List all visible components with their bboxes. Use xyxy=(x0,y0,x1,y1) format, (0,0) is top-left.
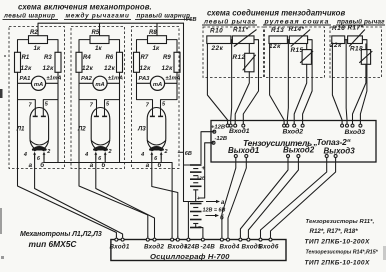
svg-text:2: 2 xyxy=(108,149,112,155)
svg-text:R1: R1 xyxy=(22,55,30,61)
wire: right node down to tube pin 5 of Л3 xyxy=(161,83,178,116)
svg-text:Вход3: Вход3 xyxy=(345,128,366,136)
svg-text:РА3: РА3 xyxy=(139,76,151,82)
svg-text:Вход1: Вход1 xyxy=(229,127,250,135)
svg-text:Вход6: Вход6 xyxy=(259,243,279,251)
svg-text:12к: 12к xyxy=(43,65,55,72)
svg-text:12В = 6В: 12В = 6В xyxy=(203,208,226,214)
heater lead arrows (pins 4,6,2) of Л2 xyxy=(95,154,97,160)
wire: R13 left lead down to amplifier input xyxy=(270,44,285,125)
wire: stub from rail to R2 xyxy=(37,23,39,36)
wire: tube Л3 lead а to Вход3 (b) xyxy=(152,160,178,237)
resistor R4 12к (vertical) xyxy=(76,52,82,72)
wire: R10-R11 junction down to amplifier input xyxy=(231,40,233,124)
wire: block2 left node to Вход2 (a) xyxy=(79,100,148,237)
svg-text:±1mA: ±1mA xyxy=(47,76,62,82)
wire: tube Л1 lead а to Вход1 (b) xyxy=(35,160,123,237)
wire: R5 left to R4 top xyxy=(79,40,90,53)
wire: R10 left lead down to amplifier input xyxy=(207,44,227,125)
svg-text:mA: mA xyxy=(153,82,162,88)
wire: tube Л2 lead а to Вход2 (b) xyxy=(96,160,155,237)
wire: R15 top stub to R14 xyxy=(306,44,308,50)
wire: R4 bottom to meter РА2 xyxy=(79,72,93,83)
svg-text:2: 2 xyxy=(46,149,50,155)
svg-text:-12В: -12В xyxy=(215,136,228,142)
wire: Выход3 to oscillograph Вход6 xyxy=(261,162,327,237)
dashed enclosure box 2 (mechanotron Л2) xyxy=(71,27,125,169)
amplifier input terminals Вход2 xyxy=(283,124,286,127)
svg-text:±1mA: ±1mA xyxy=(108,76,123,82)
svg-text:+24В: +24В xyxy=(184,244,200,251)
wire: left node down to tube pin 7 of Л2 xyxy=(79,83,97,116)
wire: R2 right to R3 top xyxy=(48,40,59,53)
wire: б heater bus to 6В tap xyxy=(44,160,172,237)
milliammeter РА3 ±1mA xyxy=(150,76,164,90)
resistor R16 22к (horizontal) xyxy=(332,36,345,44)
svg-text:Вход1: Вход1 xyxy=(110,243,130,251)
svg-text:12к: 12к xyxy=(21,65,33,72)
oscillograph input terminals xyxy=(115,236,117,239)
wire: R8 left to R7 top xyxy=(137,40,148,53)
svg-text:4: 4 xyxy=(84,152,88,158)
wire: R2 left to R1 top xyxy=(18,40,29,53)
svg-text:1к: 1к xyxy=(95,45,102,52)
resistor R5 1к (horizontal) xyxy=(90,36,109,44)
svg-text:R11*: R11* xyxy=(233,27,248,34)
strain gauge R15* (vertical, slashed) xyxy=(302,50,311,65)
wire: R5 right to R6 top xyxy=(109,40,120,53)
wire: right node down to tube pin 5 of Л1 xyxy=(43,83,58,116)
arrow to heater node б xyxy=(206,215,217,217)
battery GB1 12В (amplifier supply) xyxy=(190,164,202,166)
svg-text:12к: 12к xyxy=(82,65,94,72)
wire: R14 right lead down to amplifier input xyxy=(303,40,313,124)
wire: block2 right node drop to bus xyxy=(119,83,121,162)
strain gauge R14* (horizontal, slashed) xyxy=(289,36,307,44)
svg-text:Тензорезисторы R11*,: Тензорезисторы R11*, xyxy=(306,219,375,225)
wire: meter РА2 to R6 bottom xyxy=(107,72,119,83)
svg-text:Выход3: Выход3 xyxy=(324,147,356,156)
dashed enclosure box (strain gauges R10-R12) xyxy=(203,27,264,78)
svg-text:4: 4 xyxy=(23,152,27,158)
svg-text:6В: 6В xyxy=(185,151,192,157)
svg-text:рулевая сошка: рулевая сошка xyxy=(264,18,330,25)
wire: battery minus to -24В terminal xyxy=(196,225,203,237)
svg-text:12В: 12В xyxy=(197,176,206,182)
svg-text:+: + xyxy=(197,196,200,202)
anode plates inside Л3 xyxy=(150,115,155,117)
wire: R12 bottom down to amplifier input xyxy=(235,72,249,124)
anode plates inside Л1 xyxy=(33,115,38,117)
svg-text:12к: 12к xyxy=(162,65,174,72)
svg-text:РА2: РА2 xyxy=(81,76,93,82)
svg-text:R17*: R17* xyxy=(348,24,364,31)
wire: R15 bottom down to amplifier input xyxy=(294,64,307,124)
arrow to heater node а xyxy=(206,201,217,203)
svg-text:а: а xyxy=(29,162,33,169)
resistor R10 22к (horizontal) xyxy=(207,36,231,44)
wire: left node down to tube pin 7 of Л1 xyxy=(18,83,36,116)
svg-text:Л2: Л2 xyxy=(77,126,86,133)
wire: meter РА1 to R3 bottom xyxy=(46,72,58,83)
svg-text:-24В: -24В xyxy=(201,244,216,251)
mechanotron tube Л3 envelope xyxy=(147,108,166,151)
wire: stub from rail to R5 xyxy=(99,23,101,36)
wire: meter РА3 to R9 bottom xyxy=(165,72,177,83)
svg-text:R9: R9 xyxy=(163,55,171,61)
battery GB2 12В with 6В tap (heater supply) xyxy=(190,203,202,205)
mechanotron tube Л2 envelope xyxy=(91,108,110,151)
svg-text:12к: 12к xyxy=(140,65,152,72)
svg-text:1к: 1к xyxy=(34,45,41,52)
label 6В tap on rail xyxy=(178,151,184,153)
wire: R11 right lead down to amplifier input xyxy=(243,40,258,124)
cathode arc at bottom of Л3 xyxy=(147,141,165,146)
svg-text:+: + xyxy=(202,166,206,172)
svg-text:R10: R10 xyxy=(210,27,223,34)
svg-text:R16: R16 xyxy=(332,25,345,32)
wire: Выход1 to oscillograph Вход4 xyxy=(222,162,236,237)
milliammeter РА2 ±1mA xyxy=(93,76,107,90)
resistor R2 1к (horizontal) xyxy=(29,36,48,44)
heater lead arrows (pins 4,6,2) of Л3 xyxy=(151,154,153,160)
svg-text:mA: mA xyxy=(95,82,104,88)
svg-text:4: 4 xyxy=(140,152,144,158)
strain gauge R12* (vertical, slashed) xyxy=(245,53,254,72)
resistor R1 12к (vertical) xyxy=(15,52,21,72)
svg-text:R12: R12 xyxy=(233,54,246,61)
svg-text:12к: 12к xyxy=(104,65,116,72)
svg-text:схема соединения тензодатчиков: схема соединения тензодатчиков xyxy=(207,8,345,17)
cathode arc at bottom of Л1 xyxy=(30,141,48,146)
wire: R17 right lead down to amplifier input xyxy=(360,40,367,124)
svg-text:ТИП 2ПКБ-10-100Х: ТИП 2ПКБ-10-100Х xyxy=(305,259,370,266)
strain gauge R17* (horizontal, slashed) xyxy=(348,36,363,44)
dashed enclosure box 3 (mechanotron Л3) xyxy=(132,27,180,169)
wire: R18 bottom down to amplifier input xyxy=(353,64,366,124)
wire: б stub tube Л2 to bus xyxy=(104,160,106,163)
svg-text:+12В: +12В xyxy=(211,125,225,131)
svg-text:„Топаз-2“: „Топаз-2“ xyxy=(313,137,352,147)
svg-text:схема включения механотронов.: схема включения механотронов. xyxy=(18,2,152,11)
wire: R18 top stub to R17 xyxy=(365,44,367,50)
svg-text:РА1: РА1 xyxy=(20,76,31,82)
resistor R9 12к (vertical) xyxy=(174,52,180,72)
svg-text:Выход2: Выход2 xyxy=(283,145,315,154)
svg-text:+76В: +76В xyxy=(183,17,197,23)
resistor R13 12к (horizontal) xyxy=(269,36,287,44)
svg-text:R4: R4 xyxy=(83,55,91,61)
dashed enclosure box (strain gauges R16-R18) xyxy=(330,27,382,78)
svg-text:22к: 22к xyxy=(329,42,342,49)
svg-text:между рычагами: между рычагами xyxy=(66,12,130,20)
wire: R1 bottom to meter РА1 xyxy=(18,72,32,83)
svg-text:левый шарнир: левый шарнир xyxy=(3,12,55,20)
svg-text:R6: R6 xyxy=(106,55,114,61)
svg-text:Вход4: Вход4 xyxy=(220,243,240,251)
wire: +76V top rail xyxy=(38,22,184,24)
svg-text:R13: R13 xyxy=(271,27,284,34)
wire: +76V rail drop to battery junction xyxy=(183,23,185,201)
resistor R3 12к (vertical) xyxy=(55,52,61,72)
milliammeter РА1 ±1mA xyxy=(31,76,45,90)
svg-text:Л3: Л3 xyxy=(137,126,146,133)
wire: right node down to tube pin 5 of Л2 xyxy=(105,83,120,116)
amplifier input terminals Вход1 xyxy=(226,124,229,127)
svg-text:Тензорезисторы R14*,R15*: Тензорезисторы R14*,R15* xyxy=(306,249,379,255)
svg-text:R15: R15 xyxy=(291,47,304,54)
wire: battery junction row xyxy=(184,190,203,202)
dashed enclosure box 1 (mechanotron Л1) xyxy=(9,27,65,169)
wire: block1 left node to oscillograph Вход1 (a) xyxy=(18,100,117,237)
svg-text:R5: R5 xyxy=(92,30,100,36)
svg-text:R3: R3 xyxy=(44,55,52,61)
wire: stub from rail to R8 xyxy=(156,23,158,36)
wire: +12В to battery stack xyxy=(201,132,214,164)
amplifier box Тензоусилитель Топаз-2 xyxy=(211,121,376,163)
svg-text:±1mA: ±1mA xyxy=(166,76,181,82)
strain gauge R11* (horizontal, slashed) xyxy=(232,36,254,44)
svg-text:mA: mA xyxy=(34,82,43,88)
cathode arc at bottom of Л2 xyxy=(91,141,109,146)
wire: R7 bottom to meter РА3 xyxy=(137,72,151,83)
svg-text:R7: R7 xyxy=(141,55,149,61)
svg-text:Осциллограф Н-700: Осциллограф Н-700 xyxy=(150,252,230,261)
amplifier input terminals Вход3 xyxy=(341,124,344,127)
wire: R16 left lead down to amplifier input xyxy=(332,44,342,125)
wire: -12В to battery bottom xyxy=(199,143,214,198)
svg-text:R12*, R17*, R18*: R12*, R17*, R18* xyxy=(310,228,359,235)
svg-text:R18: R18 xyxy=(350,46,363,53)
svg-text:Механотроны Л1,Л2,Л3: Механотроны Л1,Л2,Л3 xyxy=(20,231,102,238)
svg-text:R14*: R14* xyxy=(289,26,305,33)
svg-text:левый рычаг: левый рычаг xyxy=(203,17,256,25)
wire: block1 right node drop to bus xyxy=(57,83,59,162)
svg-text:тип 6МХ5С: тип 6МХ5С xyxy=(29,239,78,249)
svg-text:22к: 22к xyxy=(211,45,224,52)
wire: R13-R14 junction down to amplifier input xyxy=(287,40,289,124)
dashed enclosure box (strain gauges R13-R15) xyxy=(265,27,325,78)
wire: left node down to tube pin 7 of Л3 xyxy=(137,83,153,116)
resistor R7 12к (vertical) xyxy=(134,52,140,72)
svg-text:ТИП 2ПКБ-10-200Х: ТИП 2ПКБ-10-200Х xyxy=(305,239,370,246)
wire: +76В junction to +24В terminal xyxy=(187,202,189,237)
wire: R12 top stub to R11 xyxy=(248,44,250,54)
wire: R16-R17 junction down to amplifier input xyxy=(345,40,348,124)
anode plates inside Л2 xyxy=(94,115,99,117)
strain gauge R18* (vertical, slashed) xyxy=(361,50,370,65)
svg-text:R2: R2 xyxy=(30,30,38,36)
oscillograph box Н-700 xyxy=(111,240,286,261)
svg-text:Выход1: Выход1 xyxy=(228,146,260,155)
wire: Выход2 to oscillograph Вход5 xyxy=(240,162,288,237)
resistor R6 12к (vertical) xyxy=(117,52,123,72)
wire: б stub tube Л3 to bus xyxy=(160,160,162,163)
svg-text:б: б xyxy=(220,215,224,222)
scan artifacts xyxy=(0,89,3,98)
svg-text:Вход2: Вход2 xyxy=(283,127,304,135)
resistor R8 1к (horizontal) xyxy=(148,36,167,44)
wire: R8 right to R9 top xyxy=(167,40,178,53)
svg-text:2: 2 xyxy=(164,149,168,155)
svg-text:Вход2: Вход2 xyxy=(144,243,164,251)
heater lead arrows (pins 4,6,2) of Л1 xyxy=(34,154,36,160)
mechanotron tube Л1 envelope xyxy=(30,108,49,151)
svg-text:R8: R8 xyxy=(149,30,157,36)
svg-text:1к: 1к xyxy=(153,45,160,52)
svg-text:12к: 12к xyxy=(269,43,281,50)
